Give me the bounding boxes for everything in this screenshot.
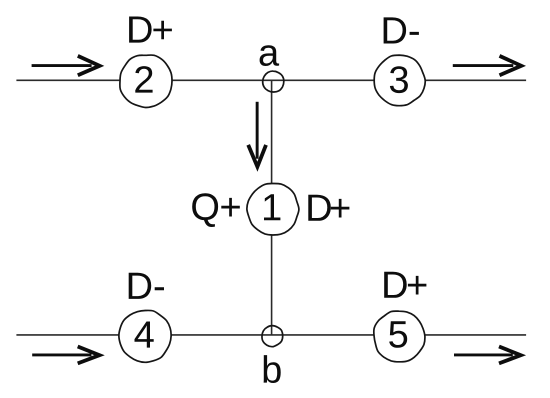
wire top horizontal line (16, 79, 526, 81)
arrow bottom-right flow (454, 347, 521, 364)
node a (junction) (263, 71, 284, 92)
arrow top-right flow (453, 56, 522, 75)
arrow top-left flow (32, 56, 100, 75)
label b (264, 355, 281, 383)
node 1 (queue circle) (247, 183, 299, 235)
node 4 (queue circle) (119, 310, 171, 362)
arrow bottom-left flow (32, 347, 99, 364)
label a (260, 45, 280, 66)
arrow down a-to-1 flow (248, 102, 266, 167)
label D- node 3 (384, 17, 419, 43)
node b (junction) (262, 326, 283, 347)
label D+ node 5 (384, 272, 426, 298)
label D+ node 2 (129, 17, 172, 43)
node 2 (queue circle) (120, 55, 172, 107)
label D+ node 1 (308, 195, 349, 221)
node 3 (queue circle) (374, 55, 425, 106)
wire bottom horizontal line (16, 334, 526, 336)
node 5 (queue circle) (374, 311, 425, 362)
label Q+ node 1 (192, 193, 240, 227)
label D- node 4 (129, 273, 164, 299)
wire vertical a-b (271, 81, 273, 336)
